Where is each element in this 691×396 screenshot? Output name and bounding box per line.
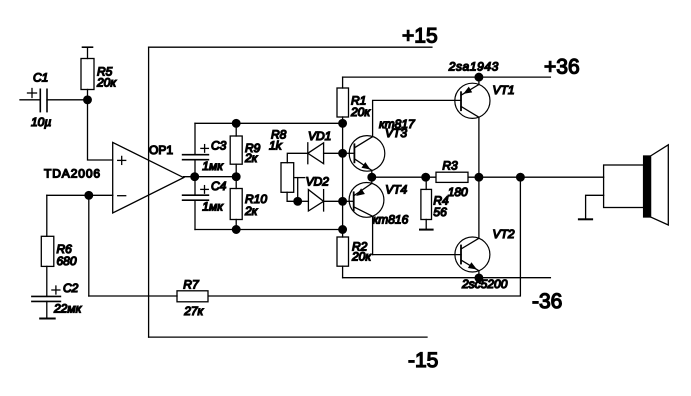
ground below speaker [579, 218, 592, 220]
svg-text:C4: C4 [211, 179, 227, 193]
svg-text:2к: 2к [244, 204, 259, 218]
svg-text:OP1: OP1 [149, 143, 173, 157]
svg-text:R7: R7 [183, 278, 200, 292]
node R10 bottom [232, 226, 240, 234]
svg-text:-15: -15 [408, 349, 438, 372]
svg-text:C1: C1 [33, 70, 48, 84]
svg-text:680: 680 [57, 254, 77, 268]
svg-text:TDA2006: TDA2006 [44, 167, 101, 181]
svg-text:1мк: 1мк [202, 200, 224, 214]
svg-text:2sa1943: 2sa1943 [448, 59, 499, 73]
node op-amp output [191, 173, 199, 181]
svg-text:+36: +36 [544, 55, 580, 78]
wire coupling bottom [195, 229, 343, 231]
node R3 left / R4 top [422, 173, 430, 181]
svg-text:27к: 27к [183, 304, 204, 318]
wire feedback loop [208, 177, 520, 296]
svg-text:VT4: VT4 [385, 183, 407, 197]
transistor VT2 (2sc5200 NPN) [455, 177, 490, 278]
wire op-amp - input [47, 194, 113, 196]
svg-text:кm816: кm816 [373, 212, 409, 226]
capacitor C1 [20, 89, 88, 112]
wire op-amp output [184, 176, 237, 178]
svg-text:C2: C2 [63, 281, 79, 295]
node R2 top [339, 226, 347, 234]
node R8/VD2 junction [294, 198, 302, 206]
node R9/R10 junction [232, 173, 240, 181]
wire speaker ground stub [586, 195, 604, 219]
resistor R8 [281, 153, 308, 201]
svg-text:-36: -36 [532, 290, 562, 313]
resistor R3 [436, 172, 468, 182]
wire output row [372, 176, 604, 178]
resistor R10 [230, 177, 242, 230]
node R9 top [232, 120, 240, 128]
wire supply vertical [148, 47, 150, 337]
svg-text:+15: +15 [402, 24, 438, 47]
wire VT4 collector to VT2 base [373, 254, 461, 256]
svg-text:R3: R3 [442, 158, 458, 172]
transistor VT3 (кт817 NPN) [343, 136, 385, 178]
node C1/R5 junction [84, 96, 92, 104]
wire +15 rail [149, 46, 432, 48]
svg-text:1k: 1k [269, 139, 283, 153]
node VT3 base [339, 150, 347, 158]
svg-text:VD2: VD2 [306, 175, 330, 189]
capacitor C3 [183, 123, 209, 176]
svg-text:20к: 20к [351, 249, 372, 263]
diode VD2 [298, 190, 343, 211]
resistor R9 [230, 123, 242, 176]
op-amp U1 OP1 [113, 142, 184, 213]
svg-text:20к: 20к [96, 76, 117, 90]
wire stub above VD2 node [295, 178, 305, 202]
resistor R2 [337, 230, 349, 278]
wire -36 rail [343, 277, 551, 279]
wire feedback to minus input [88, 195, 90, 296]
transistor VT1 (2sa1943 PNP) [455, 77, 490, 177]
svg-text:C3: C3 [211, 139, 227, 153]
resistor R5 [81, 47, 94, 100]
node VT4 base [339, 198, 347, 206]
svg-text:VD1: VD1 [308, 129, 331, 143]
node VT1 emitter/+36 [475, 73, 483, 81]
ground below R4 [420, 229, 433, 231]
ground below C2 [40, 318, 55, 320]
node feedback junction [85, 192, 93, 200]
svg-text:2sc5200: 2sc5200 [461, 277, 508, 291]
wire to op-amp + input [88, 100, 113, 160]
wire bias chain vertical [342, 123, 344, 229]
node feedback tap [517, 173, 525, 181]
capacitor C4 [183, 177, 209, 230]
svg-text:56: 56 [433, 205, 447, 219]
wire VT3 collector to VT1 base [373, 100, 461, 136]
wire -15 rail [149, 336, 427, 338]
wire +36 rail [343, 76, 551, 78]
node emitters junction [368, 173, 376, 181]
svg-text:2к: 2к [244, 151, 259, 165]
capacitor C2 [32, 286, 61, 319]
svg-text:1мк: 1мк [202, 159, 224, 173]
node VT2 emitter/-36 [475, 274, 483, 282]
resistor R6 [41, 195, 54, 296]
wire coupling top [195, 122, 343, 124]
svg-text:VT2: VT2 [493, 227, 515, 241]
diode VD1 [308, 143, 343, 164]
resistor R4 [421, 177, 432, 229]
svg-text:22мк: 22мк [53, 301, 83, 315]
svg-text:20к: 20к [350, 105, 371, 119]
node output collectors [475, 173, 483, 181]
svg-text:VT3: VT3 [385, 126, 407, 140]
resistor R7 [89, 291, 208, 302]
speaker [604, 145, 669, 225]
svg-text:VT1: VT1 [493, 83, 515, 97]
svg-text:180: 180 [448, 185, 468, 199]
resistor R1 [337, 77, 349, 123]
svg-text:10µ: 10µ [31, 115, 51, 129]
node R1 bottom [339, 120, 347, 128]
transistor VT4 (кт816 PNP) [343, 177, 384, 254]
